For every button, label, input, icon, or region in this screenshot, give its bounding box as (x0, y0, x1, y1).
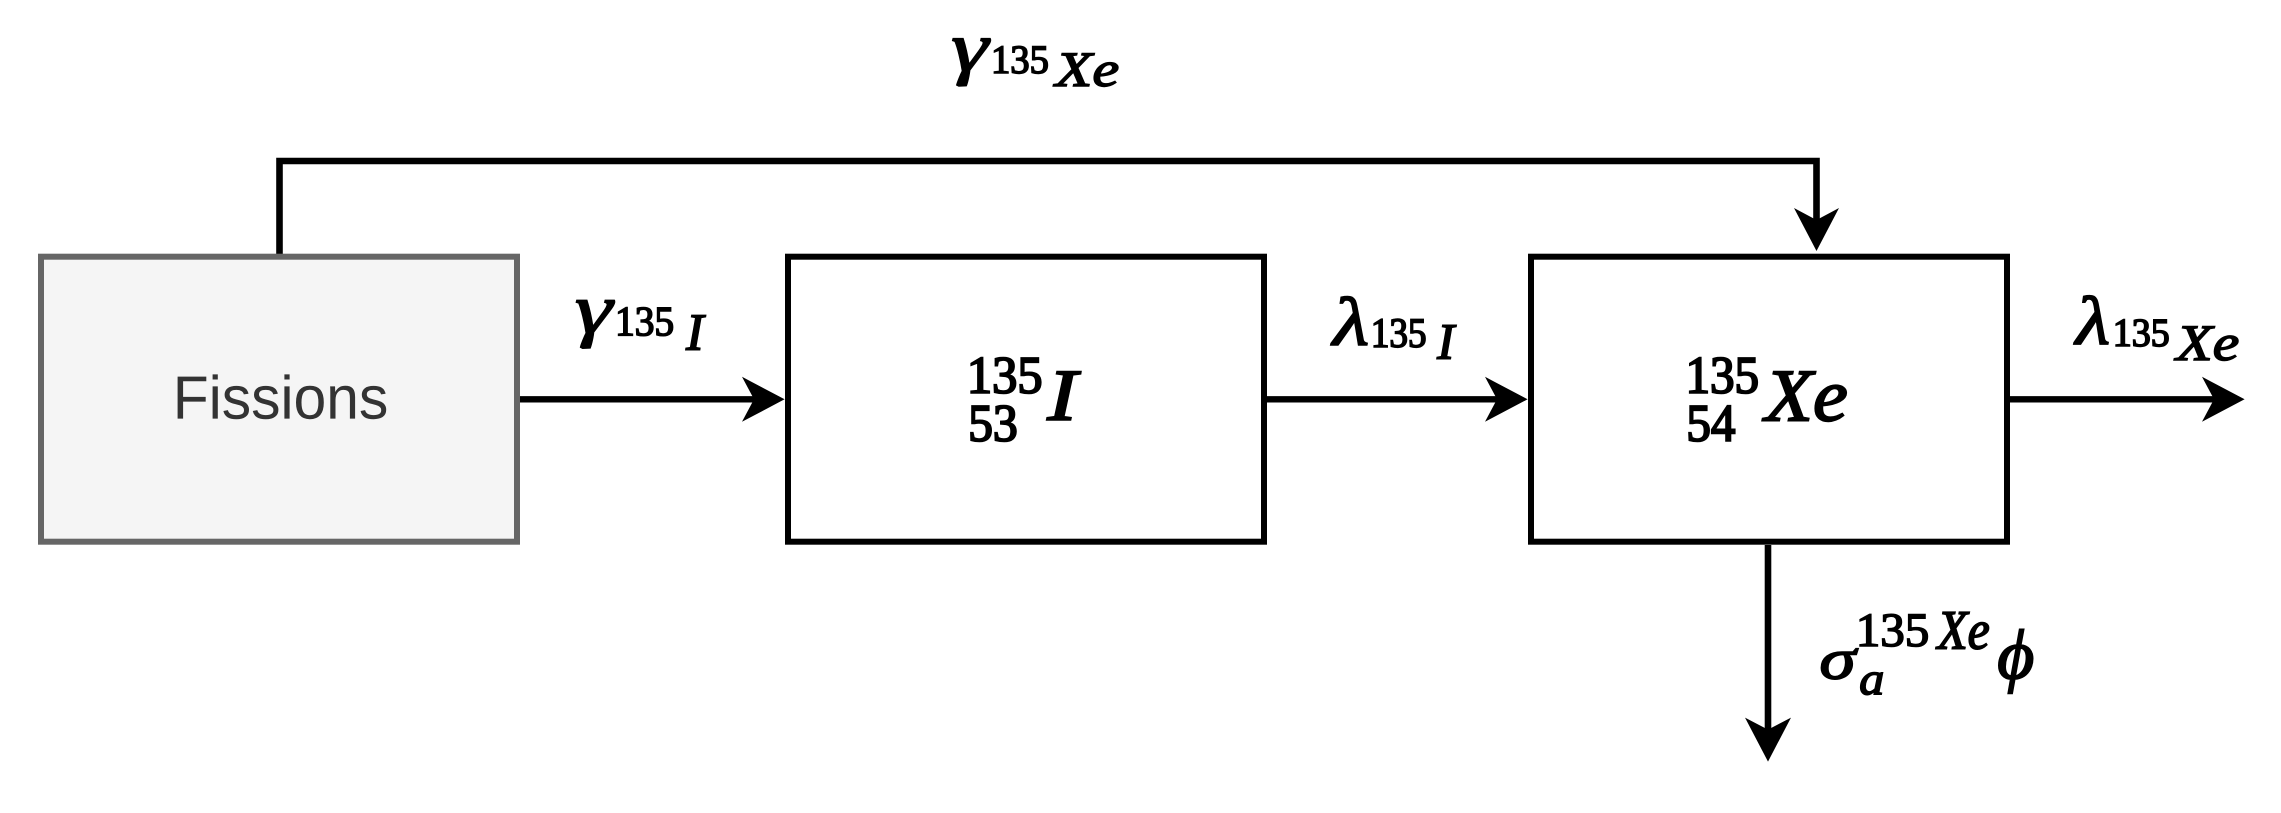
wire arrow xenon-135 decay out right (2010, 377, 2245, 422)
label Fissions (178, 374, 387, 419)
label sigma_a 135Xe phi (xenon neutron absorption) (1822, 612, 2033, 695)
label gamma 135Xe (xenon fission yield, top) (953, 39, 1118, 87)
box Fissions (41, 257, 517, 542)
wire arrow Fissions to iodine-135 (520, 377, 785, 422)
wire feedback: from Fissions top, up and across, down into Xe-135 top (280, 161, 1840, 256)
box xenon-135 (1531, 257, 2007, 542)
wire arrow xenon-135 burnup down (1745, 545, 1791, 762)
label nuclide 135/54 Xe (1689, 358, 1846, 442)
box iodine-135 (788, 257, 1264, 542)
label nuclide 135/53 I (971, 358, 1081, 442)
label lambda 135Xe (xenon decay constant) (2074, 296, 2238, 361)
label lambda 135I (iodine decay constant) (1331, 297, 1456, 359)
wire arrow iodine-135 to xenon-135 (1267, 377, 1528, 422)
label gamma 135I (iodine fission yield) (577, 301, 706, 350)
